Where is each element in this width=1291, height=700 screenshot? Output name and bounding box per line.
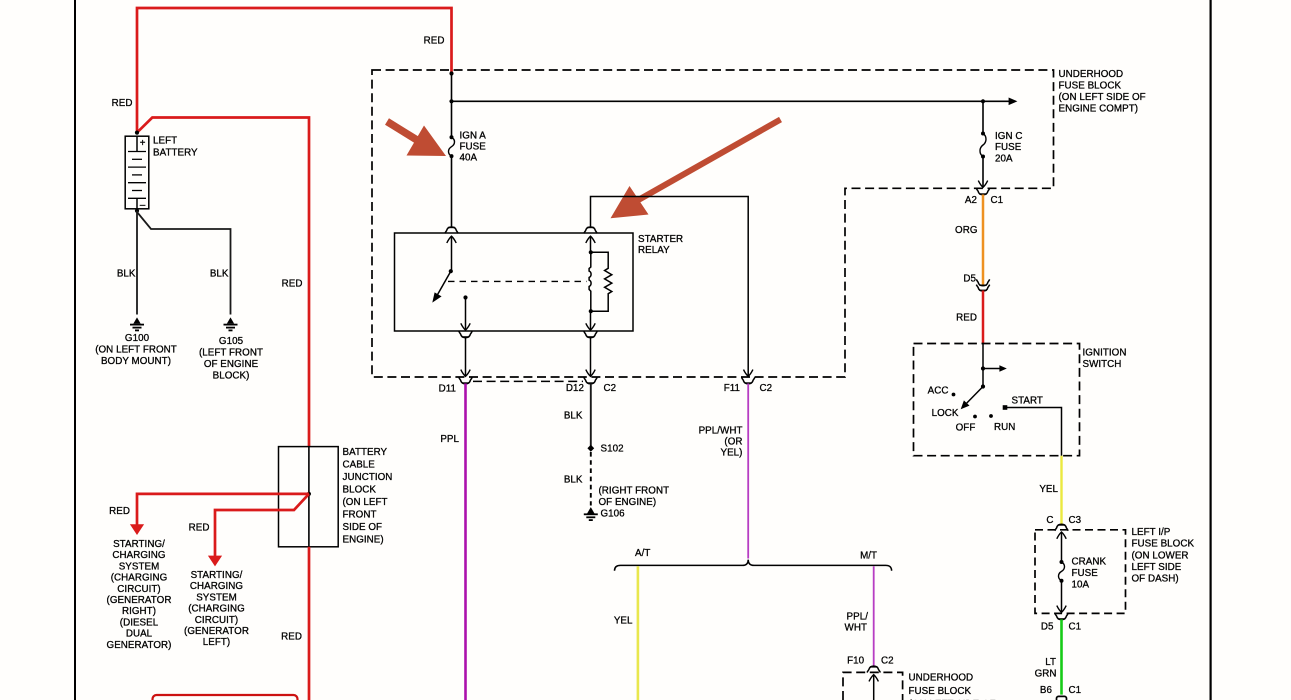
- svg-text:SYSTEM: SYSTEM: [119, 561, 160, 572]
- wire: coil bottom to relay pin 4: [590, 311, 592, 330]
- svg-text:CHARGING: CHARGING: [112, 550, 165, 561]
- wire: dashed BLK S102 to G106: [590, 452, 592, 506]
- wire: relay to fuse block edge D11: [465, 337, 467, 376]
- connector C3 cavity C: [1055, 524, 1068, 530]
- svg-text:CRANK: CRANK: [1072, 557, 1107, 568]
- svg-text:GRN: GRN: [1035, 668, 1057, 679]
- wire: BLK from D12 to S102: [590, 384, 592, 449]
- wire: switch output to relay pin 2: [465, 298, 467, 331]
- svg-text:ENGINE): ENGINE): [343, 535, 384, 546]
- svg-text:C2: C2: [881, 656, 894, 667]
- wire: relay to fuse block edge D12: [590, 337, 592, 376]
- svg-text:G100: G100: [125, 333, 150, 344]
- svg-text:BATTERY: BATTERY: [343, 447, 388, 458]
- ignition switch lever: [961, 387, 983, 410]
- svg-text:LOCK: LOCK: [932, 408, 959, 419]
- ignition switch dashed box: [914, 344, 1080, 456]
- pin arrow into I/P fuse block: [1057, 532, 1066, 539]
- svg-text:FUSE: FUSE: [995, 142, 1022, 153]
- svg-text:(ON LEFT: (ON LEFT: [343, 497, 388, 508]
- connector C1 cavity A2: [976, 188, 989, 194]
- svg-text:GENERATOR): GENERATOR): [107, 640, 172, 651]
- node: bus junction at IGN C: [981, 99, 985, 103]
- node: switch pivot: [449, 269, 453, 273]
- svg-text:(CHARGING: (CHARGING: [111, 573, 168, 584]
- svg-text:(GENERATOR: (GENERATOR: [107, 595, 172, 606]
- svg-text:LT: LT: [1045, 657, 1056, 668]
- inline connector D5: [976, 279, 989, 291]
- svg-text:BLK: BLK: [210, 269, 229, 280]
- svg-text:OF DASH): OF DASH): [1132, 574, 1179, 585]
- svg-text:C2: C2: [760, 383, 773, 394]
- underhood fuse block dashed outline: [372, 70, 1054, 377]
- svg-text:STARTING/: STARTING/: [191, 570, 243, 581]
- node: battery negative terminal: [135, 209, 139, 213]
- svg-text:C1: C1: [1069, 685, 1082, 696]
- fuse IGN C 20A: [980, 132, 986, 159]
- svg-text:(ON LEFT SIDE OF: (ON LEFT SIDE OF: [1059, 92, 1146, 103]
- wire: relay internal switch feed: [451, 237, 453, 272]
- node: switch output contact: [463, 295, 467, 299]
- wire: IGN A fuse to starter relay: [451, 156, 453, 227]
- wire: red to starting/charging system (generator left): [208, 494, 309, 567]
- svg-text:FUSE BLOCK: FUSE BLOCK: [1132, 539, 1195, 550]
- svg-text:D5: D5: [1041, 622, 1054, 633]
- connector C2 cavity D12: [584, 377, 597, 383]
- relay coil shunt resistor: [591, 252, 612, 311]
- label CRANK FUSE 10A: [1072, 557, 1107, 591]
- svg-text:G105: G105: [219, 336, 244, 347]
- svg-text:START: START: [1012, 396, 1043, 407]
- svg-text:DUAL: DUAL: [126, 629, 153, 640]
- wire: YEL ignition to crank fuse: [1060, 456, 1062, 524]
- svg-text:CABLE: CABLE: [343, 460, 376, 471]
- connector C2 cavity F11: [742, 377, 755, 383]
- wire: PPL from D11: [464, 384, 467, 700]
- svg-text:IGN A: IGN A: [460, 130, 487, 141]
- label UNDERHOOD FUSE BLOCK (ON LEFT SIDE OF ENGINE COMPT): [1059, 69, 1146, 115]
- svg-text:LEFT): LEFT): [203, 637, 230, 648]
- node: coil bottom: [589, 309, 593, 313]
- svg-text:C3: C3: [1069, 515, 1082, 526]
- svg-text:SYSTEM: SYSTEM: [196, 592, 237, 603]
- relay switch lever: [432, 271, 451, 302]
- svg-text:FRONT: FRONT: [343, 510, 377, 521]
- node: junction in battery cable junction block: [307, 492, 311, 496]
- svg-text:(ON LEFT FRONT: (ON LEFT FRONT: [95, 345, 177, 356]
- svg-text:CIRCUIT): CIRCUIT): [195, 615, 238, 626]
- svg-text:OFF: OFF: [956, 423, 976, 434]
- label UNDERHOOD FUSE BLOCK (bottom): [909, 673, 996, 700]
- left page border: [74, 0, 76, 700]
- svg-text:(ON LOWER: (ON LOWER: [1132, 550, 1189, 561]
- svg-text:RED: RED: [112, 98, 133, 109]
- svg-text:PPL/: PPL/: [847, 611, 869, 622]
- svg-text:RUN: RUN: [994, 422, 1015, 433]
- svg-text:STARTER: STARTER: [638, 234, 683, 245]
- wire: battery negative to G105: [137, 212, 231, 315]
- ground G106: [584, 507, 598, 520]
- svg-text:BATTERY: BATTERY: [153, 147, 198, 158]
- svg-text:YEL: YEL: [1039, 484, 1058, 495]
- svg-text:C1: C1: [991, 195, 1004, 206]
- wire: battery negative to G100: [136, 211, 138, 315]
- contact RUN: [989, 414, 993, 418]
- svg-text:PPL: PPL: [440, 434, 459, 445]
- left I/P fuse block dashed box: [1035, 530, 1126, 614]
- connector: relay pin 2 bottom cup: [459, 331, 472, 337]
- svg-text:(LEFT FRONT: (LEFT FRONT: [199, 348, 263, 359]
- svg-text:UNDERHOOD: UNDERHOOD: [909, 673, 974, 684]
- svg-text:C1: C1: [1069, 622, 1082, 633]
- svg-text:D12: D12: [566, 383, 584, 394]
- svg-text:IGNITION: IGNITION: [1083, 347, 1127, 358]
- battery (LEFT BATTERY): [125, 136, 149, 211]
- connector: relay pin 1 top (female cup): [445, 227, 458, 233]
- wire: red to starting/charging system (generator right): [130, 494, 309, 535]
- svg-text:+: +: [140, 138, 146, 149]
- wire: YEL A/T branch: [637, 566, 640, 700]
- svg-text:IGN C: IGN C: [995, 131, 1022, 142]
- node: ignition lever pivot: [981, 384, 985, 388]
- svg-text:RED: RED: [956, 313, 977, 324]
- svg-text:LEFT I/P: LEFT I/P: [1132, 527, 1171, 538]
- svg-text:S102: S102: [601, 444, 624, 455]
- label IGN C FUSE 20A: [995, 131, 1022, 165]
- node: red wire end in fuse block: [449, 71, 453, 75]
- label STARTING/CHARGING SYSTEM (GENERATOR LEFT): [184, 570, 249, 648]
- svg-text:BLK: BLK: [564, 475, 583, 486]
- svg-text:SIDE OF: SIDE OF: [343, 522, 383, 533]
- svg-text:OF ENGINE: OF ENGINE: [204, 359, 259, 370]
- terminal box at bottom: [1057, 696, 1067, 700]
- svg-text:A2: A2: [965, 195, 977, 206]
- svg-text:F10: F10: [847, 656, 865, 667]
- svg-text:D5: D5: [963, 274, 976, 285]
- label PPL/WHT (OR YEL): [699, 425, 743, 458]
- wire: crank fuse to D5 C1: [1061, 581, 1063, 612]
- pin arrow into fuse block: [869, 675, 878, 682]
- svg-text:(OR: (OR: [724, 437, 742, 448]
- ground G100: [130, 317, 144, 330]
- svg-text:BLOCK: BLOCK: [343, 485, 377, 496]
- svg-text:20A: 20A: [995, 153, 1013, 164]
- A/T - M/T split brace: [615, 560, 892, 571]
- svg-text:(GENERATOR: (GENERATOR: [184, 626, 249, 637]
- svg-text:10A: 10A: [1072, 580, 1090, 591]
- connector F10 C2: [867, 666, 880, 672]
- svg-text:G106: G106: [601, 509, 626, 520]
- svg-text:BODY MOUNT): BODY MOUNT): [101, 356, 171, 367]
- fuse IGN A 40A: [449, 135, 455, 158]
- wire: PPL/WHT M/T branch: [873, 566, 875, 666]
- wire: branch arrow right: [983, 365, 1007, 372]
- svg-text:PPL/WHT: PPL/WHT: [699, 425, 743, 436]
- wire: red below junction block to bottom: [308, 547, 311, 700]
- svg-text:FUSE BLOCK: FUSE BLOCK: [909, 686, 972, 697]
- svg-text:D11: D11: [439, 383, 456, 394]
- connector C2 dashed face line: [473, 380, 583, 382]
- svg-text:YEL): YEL): [721, 448, 743, 459]
- svg-text:LEFT SIDE: LEFT SIDE: [1132, 562, 1182, 573]
- wire: IGN C fuse to A2: [982, 157, 984, 188]
- svg-text:A/T: A/T: [635, 548, 650, 559]
- svg-text:YEL: YEL: [614, 616, 633, 627]
- wire: red battery positive to underhood fuse block: [137, 8, 452, 133]
- wire: PPL/WHT from F11 to A/T-M/T split: [747, 384, 749, 559]
- fuse CRANK 10A: [1059, 560, 1065, 583]
- starter relay box: [395, 233, 634, 331]
- ground G105: [224, 317, 238, 330]
- svg-text:(RIGHT FRONT: (RIGHT FRONT: [599, 486, 670, 497]
- svg-text:BLK: BLK: [564, 411, 583, 422]
- wire: vertical feed to IGN A fuse: [451, 74, 453, 138]
- underhood fuse block (bottom) dashed outline: [843, 672, 903, 700]
- svg-text:RELAY: RELAY: [638, 245, 670, 256]
- svg-text:LEFT: LEFT: [153, 136, 177, 147]
- wire: bus to IGN C branch with arrow: [452, 98, 1018, 106]
- fuse IGN C 20A branch wire: [982, 101, 984, 133]
- wire: RED from D5 to ignition switch: [982, 291, 985, 344]
- svg-text:M/T: M/T: [860, 551, 877, 562]
- right page border: [1209, 0, 1211, 700]
- red callout box bottom left: [153, 695, 298, 700]
- ignition switch internals: [982, 344, 984, 387]
- svg-text:WHT: WHT: [845, 622, 867, 633]
- wire: START contact to box edge: [1007, 408, 1062, 456]
- highlight arrow 1 (at IGN A fuse): [387, 122, 446, 157]
- svg-text:RED: RED: [282, 279, 303, 290]
- svg-text:C: C: [1046, 515, 1053, 526]
- wire: LT GRN: [1060, 619, 1063, 694]
- svg-text:ACC: ACC: [928, 386, 949, 397]
- relay coil: [589, 252, 591, 311]
- relay actuator dashed link: [448, 280, 587, 282]
- contact ACC: [952, 393, 956, 397]
- node: coil top: [589, 250, 593, 254]
- svg-text:ENGINE COMPT): ENGINE COMPT): [1059, 104, 1139, 115]
- svg-text:C2: C2: [604, 383, 617, 394]
- connector: relay pin 4 bottom cup: [584, 331, 597, 337]
- svg-text:FUSE: FUSE: [1072, 568, 1099, 579]
- svg-text:ORG: ORG: [955, 225, 977, 236]
- svg-text:RED: RED: [189, 523, 210, 534]
- connector C1 cavity D5: [1055, 613, 1068, 619]
- svg-text:CHARGING: CHARGING: [190, 581, 243, 592]
- svg-text:STARTING/: STARTING/: [113, 539, 165, 550]
- svg-text:FUSE BLOCK: FUSE BLOCK: [1059, 80, 1122, 91]
- label STARTING/CHARGING SYSTEM (GENERATOR RIGHT): [107, 539, 172, 651]
- node: battery positive terminal: [135, 131, 139, 135]
- svg-text:RED: RED: [109, 506, 130, 517]
- contact OFF: [973, 415, 977, 419]
- svg-text:RED: RED: [424, 36, 445, 47]
- svg-text:B6: B6: [1040, 685, 1053, 696]
- pin arrow into relay (right): [586, 236, 595, 243]
- svg-text:–: –: [140, 200, 146, 211]
- battery cable junction block: [279, 447, 339, 547]
- svg-text:JUNCTION: JUNCTION: [343, 472, 393, 483]
- svg-text:CIRCUIT): CIRCUIT): [117, 584, 160, 595]
- pin arrow into relay (left): [447, 236, 456, 243]
- label IGN A FUSE 40A: [460, 130, 487, 163]
- highlight arrow 2 (at starter relay): [611, 120, 781, 219]
- svg-text:UNDERHOOD: UNDERHOOD: [1059, 69, 1124, 80]
- connector: relay pin 3 top (female cup): [584, 227, 597, 233]
- wire: relay coil top to F11: [591, 197, 749, 377]
- label LEFT I/P FUSE BLOCK (ON LOWER LEFT SIDE OF DASH): [1132, 527, 1195, 584]
- wire: coil feed: [590, 237, 592, 253]
- svg-text:F11: F11: [724, 383, 740, 394]
- node: ignition feed junction: [981, 366, 985, 370]
- svg-text:RED: RED: [281, 632, 302, 643]
- svg-text:40A: 40A: [460, 153, 478, 164]
- svg-text:RIGHT): RIGHT): [122, 606, 156, 617]
- svg-text:(DIESEL: (DIESEL: [120, 617, 159, 628]
- node: bus junction at IGN A: [449, 99, 453, 103]
- svg-text:(CHARGING: (CHARGING: [188, 604, 245, 615]
- wire: ORG from A2 to D5: [982, 195, 985, 286]
- svg-text:SWITCH: SWITCH: [1083, 359, 1122, 370]
- svg-text:BLOCK): BLOCK): [213, 370, 250, 381]
- connector C2 cavity D11: [459, 377, 472, 383]
- svg-text:OF ENGINE): OF ENGINE): [599, 497, 657, 508]
- svg-text:BLK: BLK: [117, 269, 136, 280]
- node S102: [587, 445, 594, 452]
- wire: red battery positive to battery cable junction block: [137, 118, 309, 447]
- contact START: [1003, 405, 1008, 410]
- svg-text:FUSE: FUSE: [460, 142, 487, 153]
